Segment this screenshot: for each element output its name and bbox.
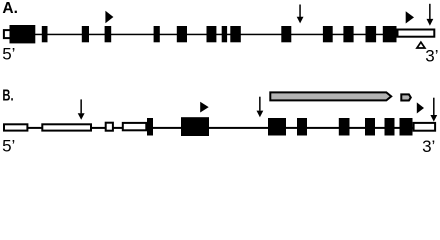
- svg-text:5’: 5’: [2, 137, 15, 156]
- svg-text:3’: 3’: [425, 47, 438, 66]
- svg-text:B.: B.: [2, 87, 13, 104]
- svg-text:5’: 5’: [2, 45, 15, 64]
- svg-text:A.: A.: [2, 0, 18, 17]
- svg-text:3’: 3’: [422, 137, 435, 156]
